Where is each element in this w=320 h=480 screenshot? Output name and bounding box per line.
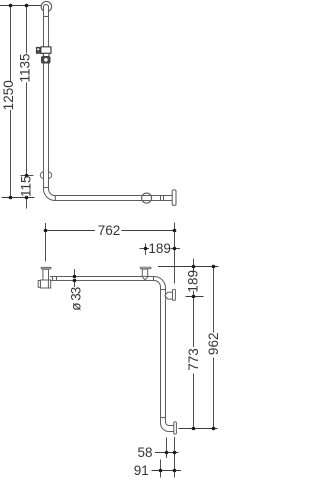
svg-text:962: 962 [206,333,221,356]
svg-text:58: 58 [137,445,152,460]
svg-text:189: 189 [148,241,171,256]
svg-text:762: 762 [98,223,121,238]
svg-text:91: 91 [134,463,149,478]
svg-text:ø 33: ø 33 [68,287,83,311]
svg-text:115: 115 [19,175,34,197]
svg-text:189: 189 [186,270,201,293]
svg-text:773: 773 [186,348,201,371]
svg-text:1250: 1250 [1,80,16,110]
svg-text:1135: 1135 [18,53,33,82]
